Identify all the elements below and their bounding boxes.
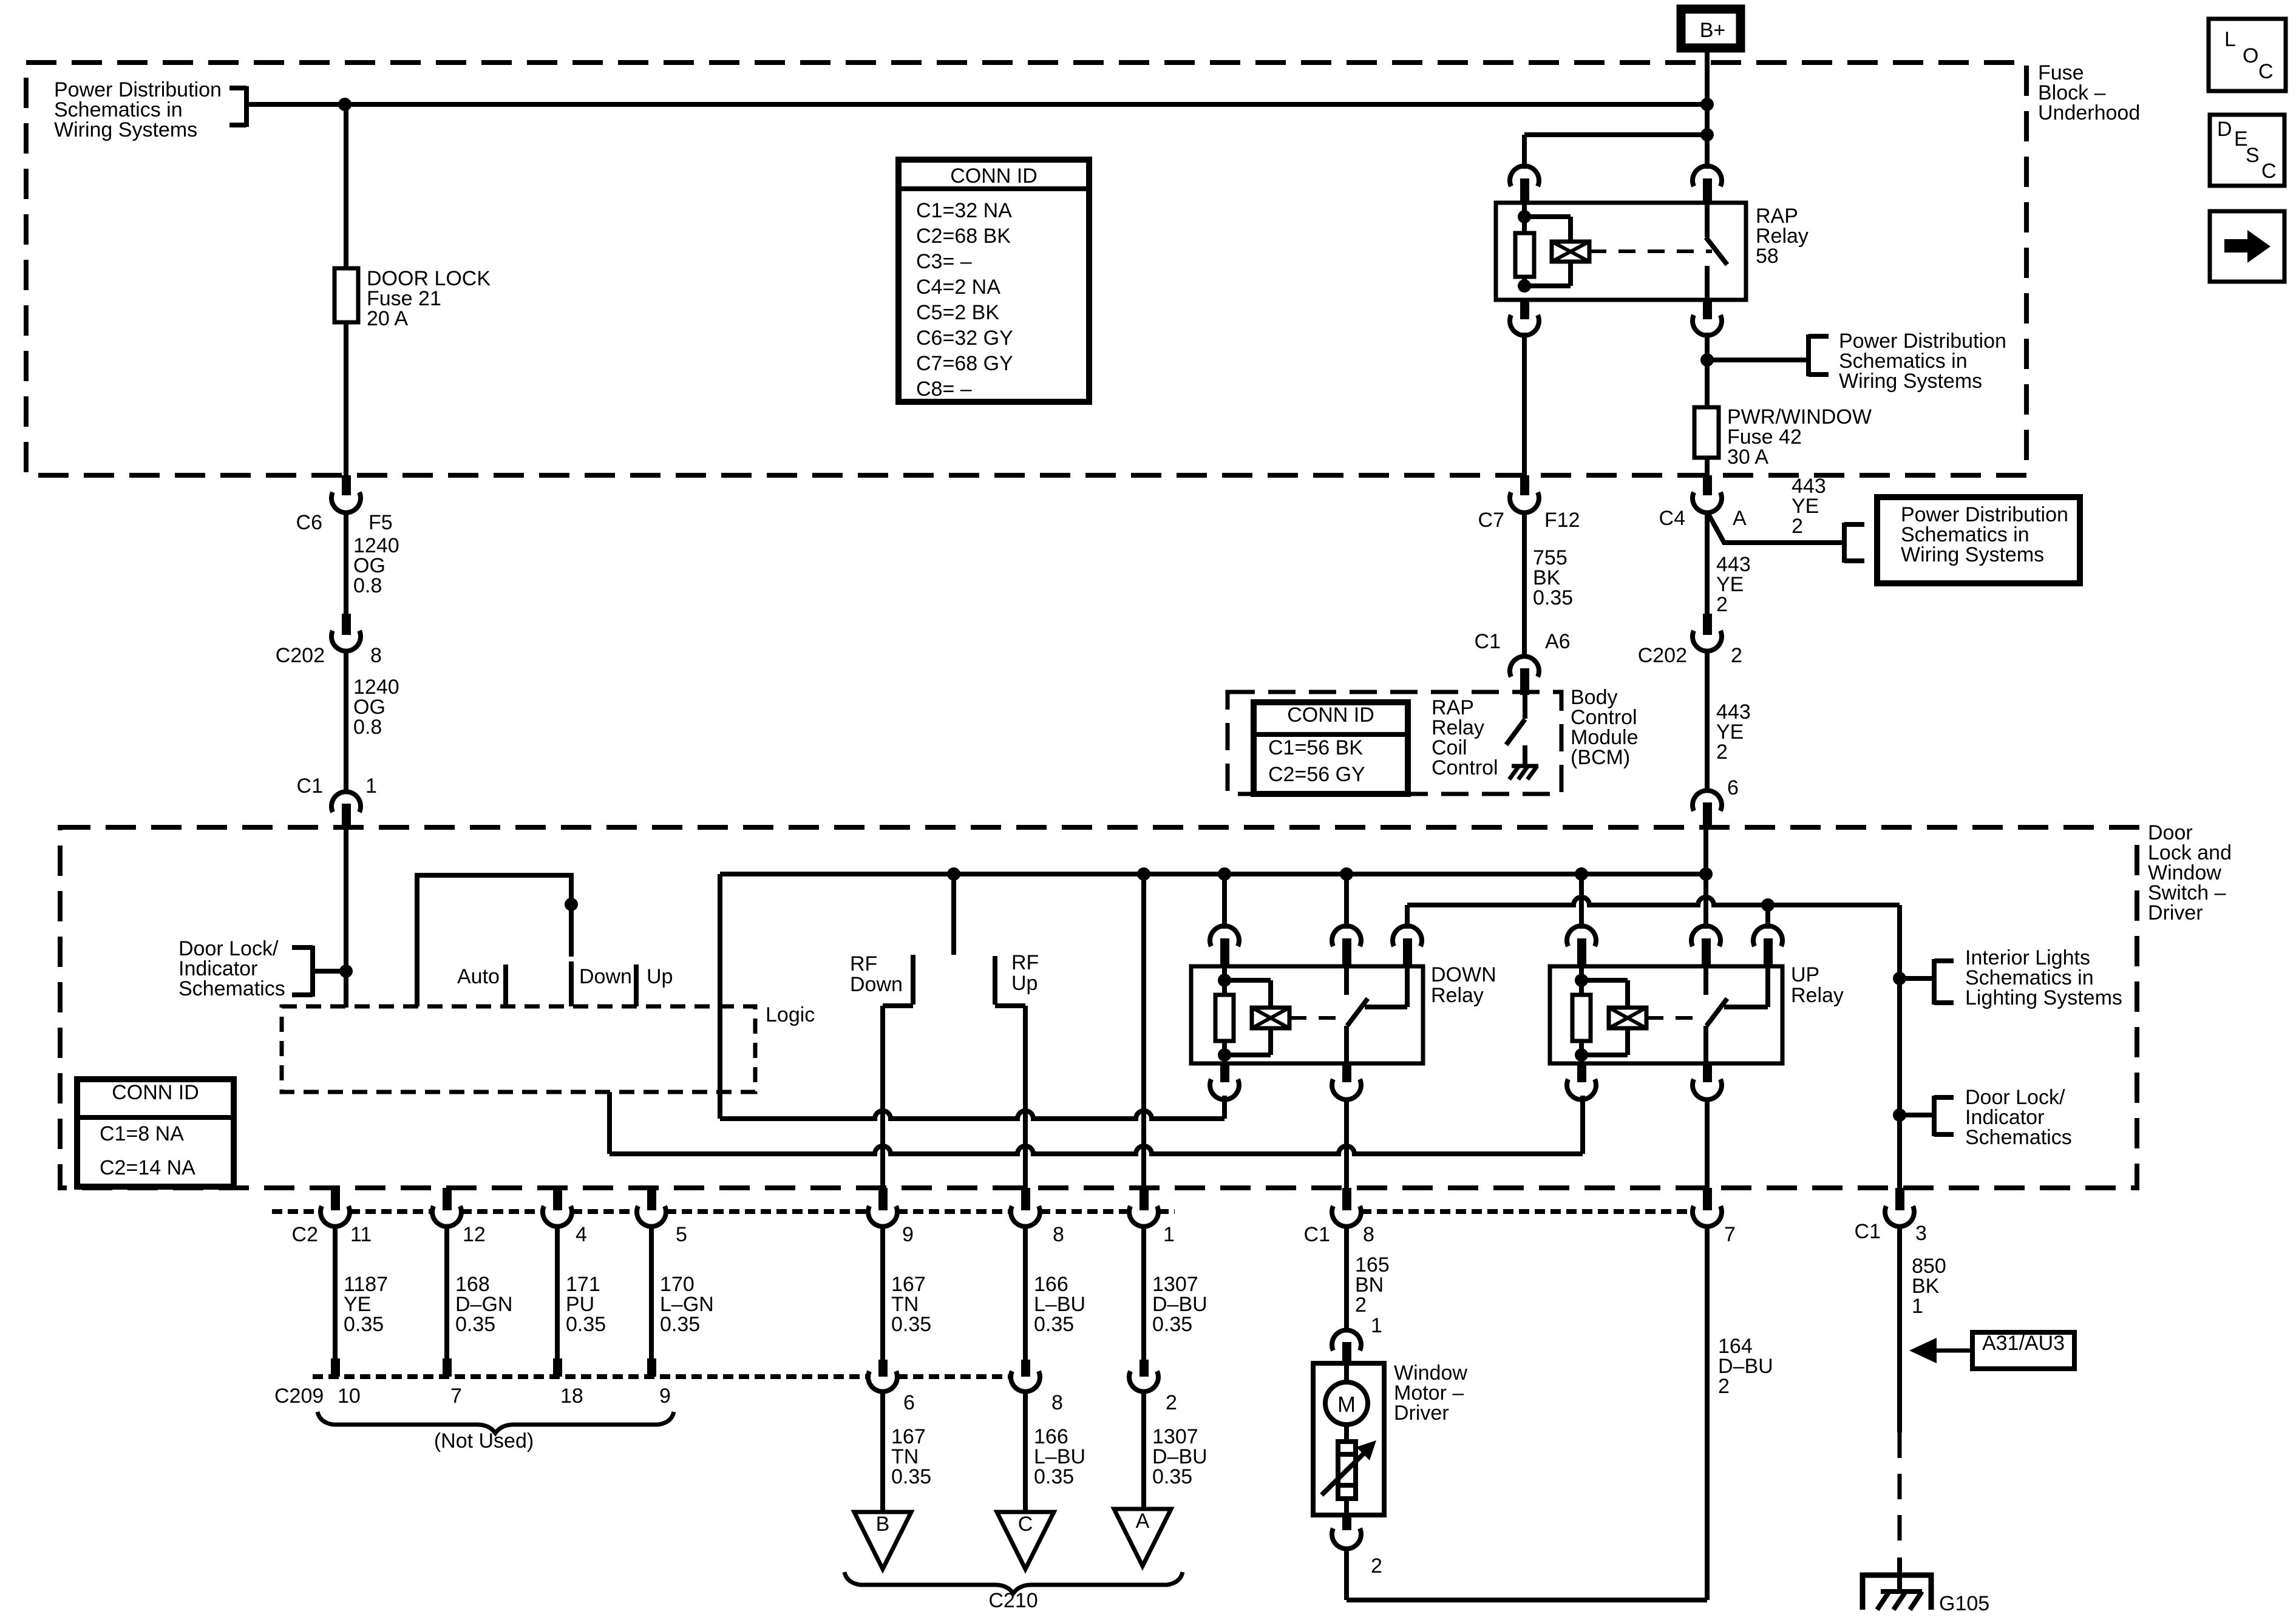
svg-text:9: 9 [659,1385,671,1408]
svg-text:Down: Down [579,965,632,988]
bracket power distribution box [1844,523,1864,563]
label C209 pin 10 [338,1385,361,1408]
svg-text:9: 9 [902,1223,914,1246]
wire dashed to G105 [1898,1432,1902,1592]
module BCM dashed box [1228,692,1561,794]
connector pin UP relay coil top [1567,926,1596,966]
svg-text:8: 8 [370,644,382,667]
svg-text:2: 2 [1718,1375,1730,1398]
wire pin8 column [1023,1006,1028,1188]
svg-text:Wiring Systems: Wiring Systems [1901,543,2044,566]
svg-text:L: L [2224,28,2236,51]
legend box LOC [2209,19,2286,91]
wire logic lower output [610,1092,1583,1154]
svg-text:0.35: 0.35 [891,1465,931,1488]
connector C2 pin 8 [1011,1188,1064,1246]
label C209 pin 9 [659,1385,671,1408]
svg-text:18: 18 [560,1385,583,1408]
svg-text:10: 10 [338,1385,361,1408]
svg-text:0.35: 0.35 [660,1313,700,1336]
svg-text:2: 2 [1355,1293,1367,1317]
wire DOWN relay coil drop [1222,874,1227,929]
junction node feed/bracket [339,964,353,978]
wire diagonal to power distribution box [1708,513,1844,543]
callout box Power Distribution Schematics in Wiring Systems [1877,497,2080,583]
svg-text:1: 1 [365,775,377,798]
junction node UP relay switch drop [1699,867,1713,881]
wire to door lock bracket [1900,1113,1934,1117]
wire logic upper output [720,1096,1224,1119]
label RAP Relay 58 [1756,205,1809,268]
svg-text:30 A: 30 A [1727,446,1768,469]
svg-text:A6: A6 [1545,630,1571,653]
svg-text:CONN ID: CONN ID [950,164,1038,188]
wire circuit 165 BN 2 [1347,1225,1390,1332]
connector pin UP relay switch top [1691,926,1720,966]
svg-text:RF: RF [1011,951,1039,974]
svg-text:C1: C1 [1304,1223,1330,1246]
junction node door lock indicator [1893,1108,1906,1122]
label C210 [988,1589,1038,1612]
svg-text:Driver: Driver [1394,1402,1449,1425]
wire down to door lock fuse [344,104,348,268]
wire circuit 850 BK 1 [1900,1225,1946,1432]
connector C2 pin 11 [321,1188,372,1246]
junction node interior lights [1893,972,1906,985]
switch blade RF Down [883,955,913,1006]
junction node B+ bus [1700,98,1714,111]
fuse PWR/WINDOW Fuse 42 30A [1694,405,1872,469]
wire fuse 21 to connector C6 [344,322,348,476]
wire pin1 column [1141,874,1146,1188]
connector pin 6 into switch [1693,776,1739,829]
svg-text:2: 2 [1716,593,1728,616]
svg-text:0.35: 0.35 [891,1313,931,1336]
junction node DOWN relay switch drop [1340,867,1353,881]
svg-text:C210: C210 [988,1589,1038,1612]
connector pin RAP relay coil bottom [1510,300,1539,336]
label circuit 443 YE 2 (top) [1792,475,1826,538]
wire UP relay switch drop [1703,829,1708,929]
connector row C209 dashed line [313,1374,1010,1379]
svg-text:2: 2 [1792,515,1803,538]
ground symbol inside BCM [1509,766,1538,779]
DOWN relay coil symbol [1252,1008,1289,1028]
switch common RF [951,874,956,955]
wire 1240 OG 0.8 lower [344,649,348,794]
wire bracket to feed [313,969,346,974]
fuse DOOR LOCK Fuse 21 20A [335,267,491,330]
bracket interior lights [1934,959,1954,1005]
label circuit 1240 OG 0.8 (lower) [353,676,399,739]
label Down [579,965,632,988]
wire circuit 170 L&#8211;GN [647,1225,714,1377]
svg-text:C: C [2258,60,2274,83]
wire circuit 166 L-BU lower [1025,1390,1085,1512]
svg-text:0.35: 0.35 [344,1313,384,1336]
svg-text:(Not Used): (Not Used) [434,1429,534,1453]
CONN ID table (fuse block) [898,160,1089,402]
svg-text:DOWN: DOWN [1431,963,1496,986]
svg-text:8: 8 [1363,1223,1374,1246]
label Fuse Block - Underhood [2038,61,2140,124]
svg-text:3: 3 [1915,1222,1927,1245]
connector pin DOWN relay coil bottom [1210,1063,1239,1100]
svg-text:C2=68 BK: C2=68 BK [916,225,1011,248]
label RF Down [850,952,903,996]
wire 1240 OG 0.8 upper [344,511,348,614]
svg-text:D: D [2217,118,2232,141]
connector C1 pin 7 [1693,1188,1736,1246]
label RAP Relay Coil Control [1432,696,1498,779]
label Power Distribution Schematics in Wiring Systems (top left) [54,78,222,141]
svg-text:Down: Down [850,973,903,996]
svg-text:C2=56 GY: C2=56 GY [1268,763,1365,786]
switch blade RF Up [995,956,1025,1006]
label C2 [292,1223,318,1246]
label Logic [766,1003,815,1026]
svg-text:C: C [2261,160,2277,183]
junction node power distribution tap [1700,353,1714,367]
wire circuit 1307 D-BU upper [1144,1225,1207,1360]
wire RAP switch out [1705,333,1710,407]
junction node pin1 drop [1137,867,1150,881]
connector pin DOWN relay switch bottom [1332,1063,1361,1100]
wire interior lights branch [1897,905,1902,1188]
svg-text:A: A [1733,507,1747,530]
DOWN relay switch [1347,966,1407,1063]
connector pin RAP relay switch bottom [1693,300,1722,336]
svg-text:Underhood: Underhood [2038,101,2140,124]
svg-text:Auto: Auto [457,965,500,988]
connector pin RAP relay coil top [1510,166,1539,203]
svg-text:12: 12 [463,1223,486,1246]
junction node at door lock fuse tap [338,98,352,111]
switch module Door Lock and Window Switch Driver dashed box [60,827,2137,1188]
svg-text:F5: F5 [369,511,393,534]
bracket power distribution right [1809,334,1829,376]
label Window Motor - Driver [1394,1361,1467,1425]
svg-text:Lighting Systems: Lighting Systems [1965,986,2122,1009]
svg-text:5: 5 [676,1223,687,1246]
switch contact Auto [503,964,508,1006]
wire circuit 168 D&#8211;GN [443,1225,512,1377]
svg-text:0.35: 0.35 [1152,1313,1192,1336]
svg-text:Wiring Systems: Wiring Systems [54,118,197,141]
connector pin 1 into motor [1332,1330,1361,1364]
connector pin 6 (inline) [868,1360,915,1414]
motor variable resistor [1322,1440,1376,1515]
wire circuit 1187 YE [331,1225,388,1377]
label Door Lock/Indicator Schematics (left) [178,937,285,1000]
svg-text:C1=56 BK: C1=56 BK [1268,736,1363,759]
svg-text:6: 6 [903,1391,915,1414]
UP relay coil resistor [1572,966,1591,1055]
wire circuit 1307 D-BU lower [1144,1390,1207,1509]
connector C7 pin F12 [1478,475,1580,532]
bracket to power distribution (top left) [229,86,246,127]
window switch loop wire [417,875,571,1006]
svg-text:C3= –: C3= – [916,250,972,273]
svg-text:Driver: Driver [2148,901,2203,924]
wire branch to RAP relay coil [1524,135,1707,169]
svg-text:C1=8 NA: C1=8 NA [100,1122,184,1145]
ground G105 [1863,1575,1989,1615]
RAP relay coil symbol [1552,242,1589,262]
svg-text:C1=32 NA: C1=32 NA [916,199,1012,222]
svg-text:G105: G105 [1939,1592,1989,1615]
connector pin UP relay common top [1753,905,1782,966]
svg-text:0.35: 0.35 [566,1313,606,1336]
connector C2 pin 9 [868,1188,914,1246]
svg-text:Schematics: Schematics [1965,1126,2072,1149]
svg-text:C1: C1 [297,775,323,798]
connector C1 pin 8 (motor feed) [1304,1188,1374,1246]
svg-text:C8= –: C8= – [916,378,972,401]
svg-text:4: 4 [576,1223,587,1246]
svg-text:2: 2 [1371,1554,1382,1578]
takeout A31/AU3 [1909,1332,2074,1369]
label Power Distribution Schematics in Wiring Systems (right of RAP) [1839,330,2006,393]
label RF Up [1011,951,1039,995]
wire feed bus inside switch [720,872,1706,876]
window motor driver box [1313,1363,1384,1515]
junction node UP relay common [1761,898,1775,912]
DOWN relay coil resistor [1215,966,1234,1055]
svg-text:Wiring Systems: Wiring Systems [1839,370,1982,393]
wire pin9 column [880,1006,885,1188]
label Auto [457,965,500,988]
connector pin DOWN relay switch top [1332,926,1361,966]
UP relay coil loop [1581,980,1628,1055]
CONN ID table (BCM) [1254,702,1408,794]
relay DOWN Relay box [1191,966,1423,1063]
wire circuit 171 PU [553,1225,606,1377]
svg-text:11: 11 [350,1223,372,1246]
label Body Control Module (BCM) [1571,686,1639,769]
wire left bus drop into logic [718,874,722,1119]
junction node down blade [565,898,578,911]
connector row C2/C1 dashed line [272,1209,1693,1214]
CONN ID table (switch) [77,1079,234,1187]
wire to power distribution bracket [1707,358,1809,362]
fuse block underhood dashed box [26,63,2026,475]
svg-text:C1: C1 [1855,1220,1881,1243]
wire circuit 164 D-BU 2 [1707,1225,1773,1600]
wire 755 BK 0.35 [1522,511,1527,659]
svg-text:1: 1 [1163,1223,1175,1246]
UP relay coil symbol [1609,1008,1646,1028]
label circuit 755 BK 0.35 [1533,546,1573,609]
switch blade Down contact [569,961,574,1006]
svg-text:CONN ID: CONN ID [1287,703,1374,727]
wire relay commons interconnect [1407,897,1900,905]
svg-text:(BCM): (BCM) [1571,746,1630,769]
RAP relay switch [1706,203,1727,300]
wire RAP coil control to C7 [1522,333,1527,476]
DOWN relay dashed actuator link [1289,1016,1344,1020]
svg-text:F12: F12 [1544,509,1580,532]
svg-text:A: A [1136,1510,1150,1533]
label C209 pin 7 [450,1385,462,1408]
RAP relay coil resistor [1515,203,1534,286]
junction node RF common [947,867,960,881]
svg-text:Logic: Logic [766,1003,815,1026]
svg-text:UP: UP [1791,963,1819,986]
label circuit 1240 OG 0.8 (upper) [353,534,399,597]
connector pin DOWN relay common top [1393,905,1422,966]
svg-text:Schematics: Schematics [178,977,285,1000]
connector pin 2 (inline) [1129,1360,1177,1414]
connector pin RAP relay switch top [1693,166,1722,203]
connector C202 pin 8 [276,614,382,667]
battery feed terminal B+ [1681,9,1741,48]
off-page triangle C [997,1512,1054,1569]
wire switch feed inside box [344,829,348,1008]
svg-text:CONN ID: CONN ID [112,1081,199,1104]
svg-text:0.35: 0.35 [1533,586,1573,609]
svg-text:0.35: 0.35 [455,1313,495,1336]
UP relay dashed actuator link [1646,1016,1703,1020]
svg-text:1: 1 [1371,1314,1382,1337]
svg-text:1: 1 [1912,1295,1923,1318]
UP relay coil junction dots [1575,974,1588,1062]
label Interior Lights Schematics in Lighting Systems [1965,946,2122,1009]
connector C1 pin 1 into switch [297,775,377,829]
brace C210 [844,1572,1183,1593]
wire B+ vertical [1705,52,1710,169]
connector C2 pin 12 [432,1188,486,1246]
label circuit 443 YE 2 (middle) [1716,553,1751,616]
svg-text:2: 2 [1716,741,1728,764]
label Door Lock/Indicator Schematics (right) [1965,1086,2072,1149]
logic dashed box [282,1006,755,1092]
label Door Lock and Window Switch - Driver [2148,821,2232,924]
svg-text:C6=32 GY: C6=32 GY [916,327,1013,350]
DOWN relay coil loop [1224,980,1271,1055]
svg-text:B+: B+ [1700,19,1726,42]
legend box arrow [2210,211,2284,282]
svg-text:B: B [876,1513,890,1536]
svg-text:Relay: Relay [1791,984,1844,1007]
svg-text:S: S [2246,144,2260,167]
BCM rap relay coil control switch [1506,695,1525,766]
label Up [647,965,673,988]
svg-text:Up: Up [647,965,673,988]
brace not used [318,1412,674,1433]
svg-text:C202: C202 [276,644,325,667]
bracket door lock indicator right [1934,1096,1954,1136]
svg-text:0.8: 0.8 [353,574,382,597]
svg-text:0.35: 0.35 [1034,1465,1074,1488]
connector C2 pin 4 [543,1188,587,1246]
label C209 [274,1385,324,1408]
wire 443 YE 2 upper [1705,511,1710,614]
wire DOWN relay switch out to motor pin [1344,1098,1349,1188]
off-page triangle B [854,1512,911,1569]
svg-text:7: 7 [1724,1223,1736,1246]
connector pin 8 (inline) [1011,1360,1063,1414]
wire fuse 42 to connector C4 [1705,458,1710,476]
svg-text:58: 58 [1756,245,1779,268]
svg-text:C2: C2 [292,1223,318,1246]
wire circuit 167 TN upper [883,1225,931,1360]
wire B+ feed bus [246,102,1707,107]
RAP relay coil loop [1524,217,1571,286]
svg-text:0.35: 0.35 [1034,1313,1074,1336]
svg-text:8: 8 [1053,1223,1064,1246]
svg-text:C: C [1018,1513,1033,1536]
connector C4 pin A [1659,475,1747,530]
wire DOWN relay switch drop [1344,874,1349,929]
legend box DESC [2210,115,2284,186]
svg-text:Control: Control [1432,756,1498,779]
label motor pin 1 [1371,1314,1382,1337]
svg-text:C209: C209 [274,1385,324,1408]
label UP Relay [1791,963,1844,1007]
svg-text:0.35: 0.35 [1152,1465,1192,1488]
svg-text:C7=68 GY: C7=68 GY [916,352,1013,375]
connector C2 pin 5 [637,1188,687,1246]
connector C6 pin F5 [296,475,393,534]
wire circuit 167 TN lower [883,1390,931,1512]
RAP relay coil junction dots [1518,210,1531,293]
svg-text:C1: C1 [1475,630,1501,653]
svg-text:Relay: Relay [1431,984,1484,1007]
bracket door lock indicator left [292,946,313,997]
connector C1 pin A6 into BCM [1475,630,1571,695]
svg-text:M: M [1337,1392,1356,1417]
svg-text:C4: C4 [1659,507,1685,530]
connector C2 pin 1 [1129,1188,1175,1246]
svg-text:6: 6 [1727,776,1739,799]
svg-text:C6: C6 [296,511,322,534]
relay UP Relay box [1550,966,1782,1063]
wire UP relay switch out to pin 7 [1705,1098,1710,1188]
motor M symbol [1325,1363,1368,1442]
svg-text:2: 2 [1166,1391,1177,1414]
connector pin DOWN relay coil top [1210,926,1239,966]
junction node UP relay coil drop [1575,867,1588,881]
off-page triangle A [1114,1509,1171,1566]
junction node DOWN relay coil drop [1218,867,1231,881]
wire UP relay coil drop [1579,874,1584,929]
label (Not Used) [434,1429,534,1453]
svg-text:20 A: 20 A [367,307,408,330]
UP relay switch [1706,966,1768,1063]
svg-text:A31/AU3: A31/AU3 [1982,1332,2065,1355]
svg-text:C2=14 NA: C2=14 NA [100,1156,195,1179]
svg-text:RF: RF [850,952,877,975]
svg-text:C7: C7 [1478,509,1504,532]
wire circuit 166 L-BU upper [1025,1225,1085,1360]
svg-text:C4=2 NA: C4=2 NA [916,276,1000,299]
svg-text:O: O [2243,44,2258,67]
svg-text:Up: Up [1011,972,1038,995]
wire motor return [1347,1547,1707,1600]
svg-text:C5=2 BK: C5=2 BK [916,301,999,324]
connector C202 pin 2 [1638,614,1742,667]
label C209 pin 18 [560,1385,583,1408]
relay RAP Relay 58 box [1496,203,1746,300]
connector C1 pin 3 [1855,1188,1927,1245]
connector pin UP relay switch bottom [1693,1063,1722,1100]
svg-text:2: 2 [1731,644,1742,667]
junction node RAP relay branch [1700,128,1714,141]
DOWN relay coil junction dots [1218,974,1231,1062]
wire 443 YE 2 lower [1705,649,1710,793]
connector pin UP relay coil bottom [1567,1063,1596,1100]
